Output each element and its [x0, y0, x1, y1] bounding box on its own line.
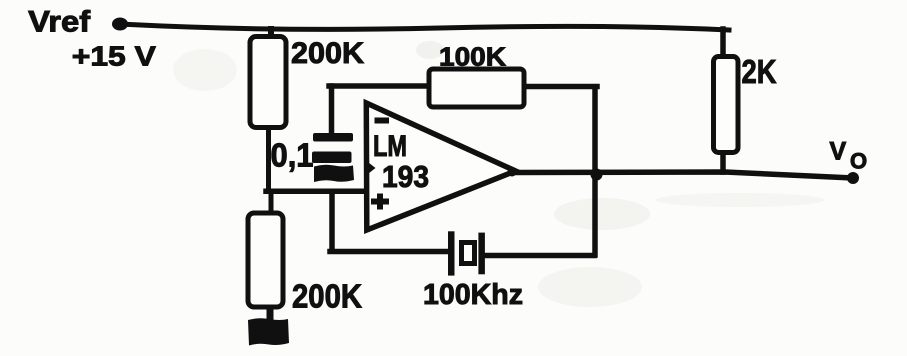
- svg-text:200K: 200K: [291, 37, 364, 70]
- svg-text:193: 193: [382, 159, 429, 194]
- svg-text:Vref: Vref: [28, 6, 91, 39]
- svg-text:200K: 200K: [292, 278, 362, 315]
- svg-text:O: O: [850, 149, 867, 174]
- svg-text:V: V: [830, 138, 847, 166]
- svg-text:100K: 100K: [439, 42, 506, 72]
- svg-text:0,1: 0,1: [271, 137, 314, 174]
- svg-text:+15 V: +15 V: [72, 41, 156, 72]
- svg-text:100Khz: 100Khz: [423, 279, 523, 311]
- svg-text:2K: 2K: [742, 53, 777, 90]
